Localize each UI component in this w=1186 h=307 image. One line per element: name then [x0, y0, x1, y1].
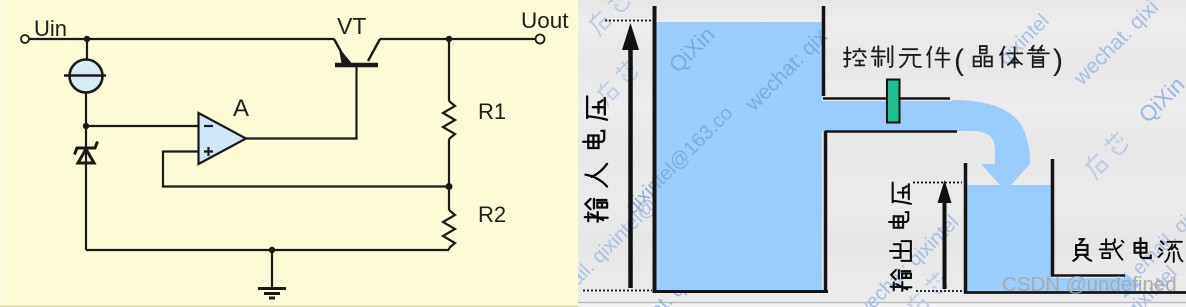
transistor VT: [334, 13, 380, 65]
dotted line top of input arrow: [605, 20, 654, 22]
small tank water fill: [967, 185, 1140, 299]
watermark QiXin over small tank: [972, 210, 1028, 266]
ground: [258, 250, 286, 298]
big tank left wall: [653, 6, 657, 293]
terminal Uin: [21, 16, 67, 43]
watermark wechat top-right: [1069, 0, 1164, 90]
watermark qixintel bottom-mid: [646, 204, 763, 307]
svg-text:Uin: Uin: [34, 16, 67, 41]
wire VT collector to Uout: [380, 38, 536, 40]
tank floor line: [964, 291, 1186, 294]
channel top wall: [823, 97, 950, 99]
big tank bottom: [653, 290, 829, 293]
valve (transistor) green: [887, 80, 900, 123]
big tank water fill: [656, 22, 952, 293]
label 负载电流: [1073, 238, 1182, 262]
node junction at ground tap: [269, 247, 275, 253]
watermark email bottom-left: [546, 140, 716, 307]
outlet shelf: [1051, 274, 1125, 277]
channel bottom wall: [825, 130, 957, 132]
terminal Uout: [521, 8, 569, 44]
watermark qixintel163 over big tank: [621, 102, 737, 218]
svg-text:CSDN @undefined: CSDN @undefined: [1002, 273, 1177, 296]
svg-text:): ): [1053, 44, 1063, 77]
input voltage arrow: [622, 23, 639, 288]
node junction top-left: [84, 36, 90, 42]
watermark qixintel bottom-right: [1122, 262, 1182, 307]
node B junction: [83, 123, 89, 129]
label 输入电压 vertical: [583, 96, 608, 221]
svg-text:R1: R1: [478, 99, 506, 124]
watermark QiXin over big tank: [664, 22, 720, 78]
left edge light strip: [0, 0, 5, 307]
flow arrow from valve to small tank: [952, 100, 1030, 191]
watermark QiXin right-edge: [1134, 72, 1186, 128]
wire top rail from Uin to VT emitter: [29, 38, 334, 40]
background texture: [578, 0, 1186, 307]
wire bottom rail: [86, 249, 449, 251]
big tank right wall lower: [824, 131, 828, 292]
svg-text:R2: R2: [478, 202, 506, 227]
wire node B to op-amp inverting input: [86, 125, 198, 127]
watermark email right-edge: [1128, 204, 1186, 279]
node junction at R1 top: [446, 36, 452, 42]
big tank right wall upper: [822, 6, 826, 96]
resistor R1: [443, 39, 506, 187]
wire op-amp output to VT base: [246, 67, 357, 139]
wire from current source to node B: [85, 93, 87, 126]
watermark wechat over big tank: [741, 25, 833, 117]
current source I1: [64, 60, 106, 93]
watermark 启芯 top-left: [586, 0, 633, 36]
resistor R2: [443, 187, 506, 251]
svg-text:Uout: Uout: [521, 8, 569, 33]
output voltage arrow: [938, 180, 952, 289]
small tank left wall: [964, 163, 968, 293]
watermark CSDN: [1002, 273, 1177, 296]
op-amp A: [199, 95, 250, 164]
svg-text:VT: VT: [337, 13, 366, 39]
svg-text:(: (: [954, 44, 964, 77]
label 控制元件(晶体管): [844, 46, 1049, 68]
watermark wechat mid: [850, 211, 963, 307]
watermark 启芯 left: [594, 59, 641, 106]
watermark qixintel top-right-corner: [994, 10, 1054, 70]
wire from node down to current source: [86, 39, 88, 59]
zener diode VD: [75, 126, 98, 250]
svg-text:A: A: [233, 95, 249, 122]
node junction R1-R2: [446, 183, 453, 190]
watermark 启芯 bottom-mid: [904, 271, 951, 307]
dotted line at output arrow bottom: [916, 290, 965, 292]
small tank right wall: [1051, 159, 1055, 276]
watermark 启芯 right: [1082, 131, 1131, 180]
dotted line bottom of input arrow: [583, 290, 652, 292]
bottom edge shading: [0, 305, 578, 307]
dotted line at small tank water level: [913, 182, 962, 184]
label 输出电压 vertical: [889, 183, 911, 291]
wire op-amp noninverting input feedback: [163, 152, 449, 187]
